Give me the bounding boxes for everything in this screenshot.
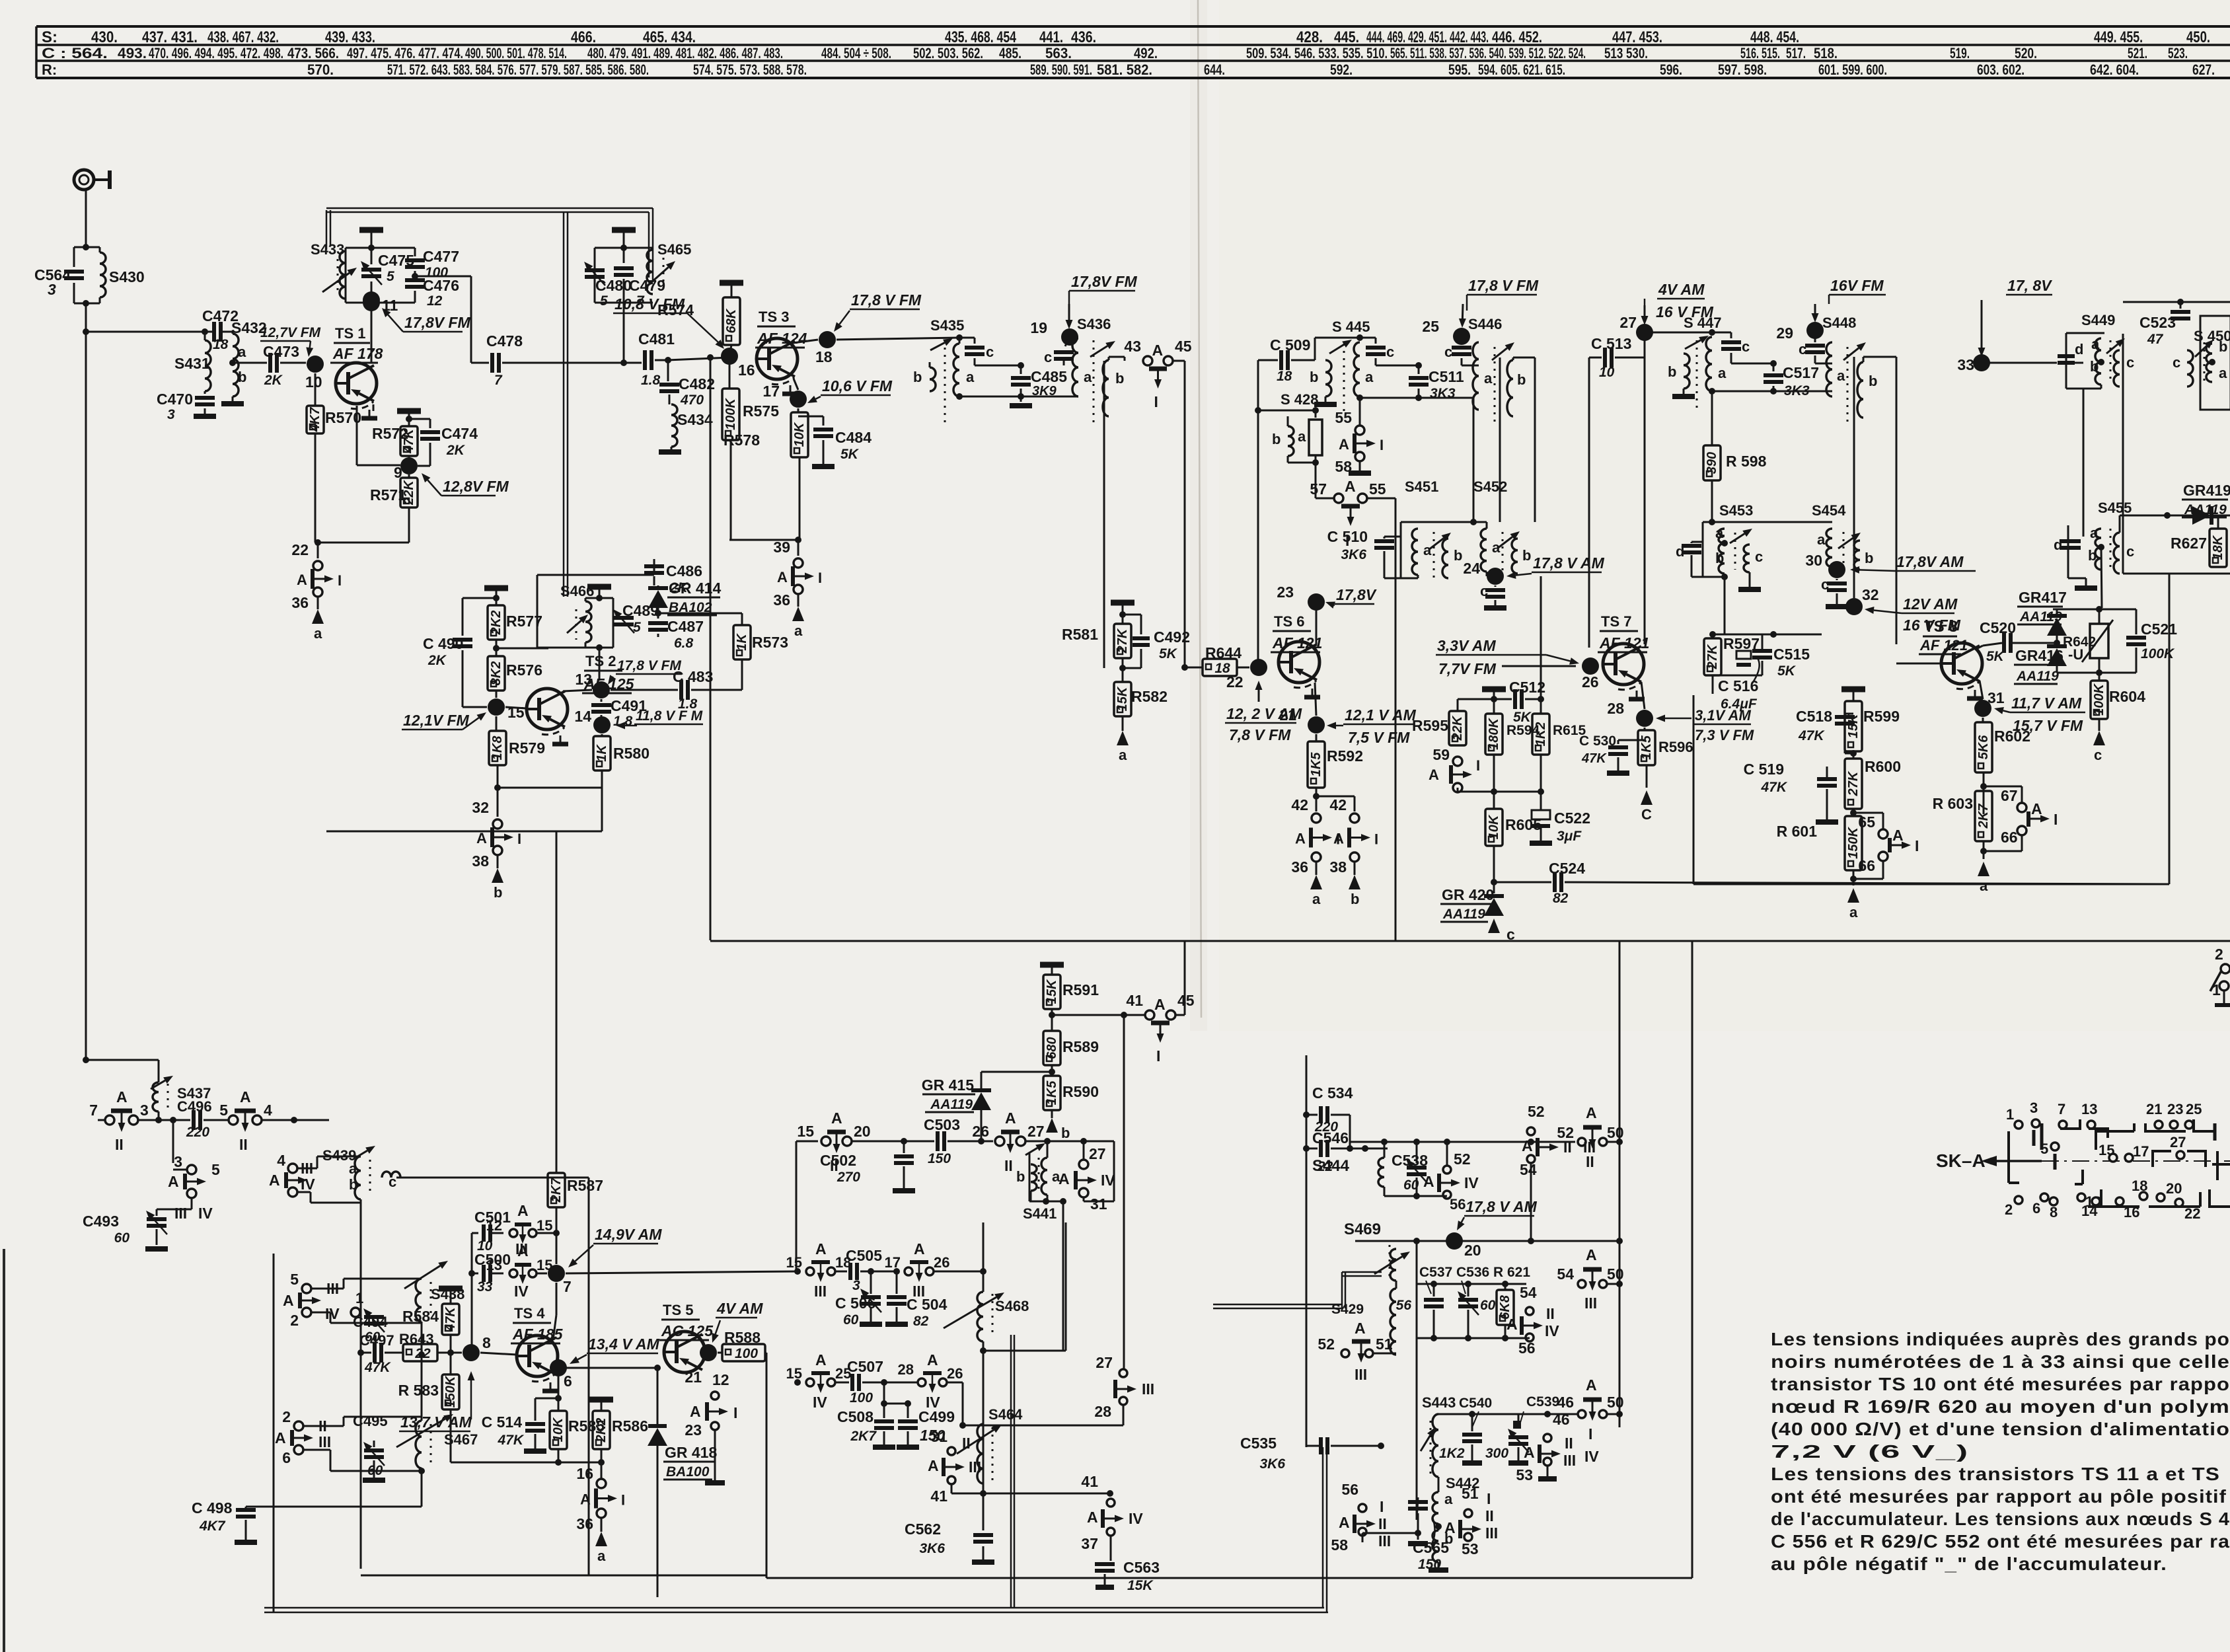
svg-text:523.: 523. [2168,45,2188,61]
capacitor d S453 [1691,541,1703,543]
svg-text:27: 27 [1089,1145,1106,1162]
svg-text:47K: 47K [364,1360,391,1375]
svg-text:I: I [1374,831,1378,848]
node 28 [1641,682,1645,709]
svg-text:13,7 V AM: 13,7 V AM [400,1413,472,1431]
tank S465 frame [595,247,653,249]
svg-text:S444: S444 [1312,1157,1350,1175]
svg-text:82: 82 [913,1314,929,1329]
svg-text:270: 270 [836,1170,860,1185]
svg-text:A: A [1506,1316,1518,1333]
svg-text:32: 32 [472,799,489,816]
svg-text:d: d [2054,537,2062,553]
resistor R591 [1043,975,1060,1009]
svg-text:563.: 563. [1045,45,1072,61]
svg-text:R579: R579 [509,739,545,757]
tank S466 [587,584,611,590]
long vertical right x2451 [1619,942,1621,1427]
contact 54-A-50-III right [1578,1280,1586,1288]
svg-text:c: c [1480,583,1488,599]
wire left rail down [85,303,87,1060]
svg-text:a: a [2090,525,2099,541]
svg-text:52: 52 [1454,1150,1471,1168]
node 26 [1582,657,1599,675]
svg-text:12V AM: 12V AM [1903,595,1958,613]
svg-text:A: A [1005,1109,1016,1127]
transistor TS4 AF185 [517,1335,558,1376]
resistor R595 [1458,698,1494,700]
node 7 [548,1265,565,1282]
svg-text:IV: IV [1545,1322,1559,1339]
svg-text:7: 7 [563,1278,572,1295]
svg-text:TS 6: TS 6 [1274,613,1304,630]
wire emitter to node 9 row [356,406,358,465]
node 11 [363,291,380,309]
svg-text:36: 36 [773,591,790,609]
svg-text:b: b [494,884,502,901]
svg-text:S465: S465 [657,241,691,258]
wire antenna down [85,190,87,247]
svg-text:50: 50 [1607,1265,1624,1283]
capacitor C523 [2177,299,2184,305]
resistor R603 [1975,791,1992,841]
row C507 [796,1271,797,1382]
svg-text:1.8: 1.8 [678,696,698,712]
svg-text:III: III [814,1283,827,1300]
svg-text:428.: 428. [1296,28,1323,46]
svg-text:4V AM: 4V AM [716,1300,763,1317]
svg-text:390: 390 [1705,452,1719,474]
svg-text:GR417: GR417 [2019,589,2067,606]
svg-text:300: 300 [1485,1446,1508,1461]
svg-text:c: c [1044,349,1052,365]
svg-text:53: 53 [1462,1540,1479,1558]
svg-text:nœud R 169/R 620 au moyen d'un: nœud R 169/R 620 au moyen d'un polym [1771,1396,2230,1417]
resistor R585 [558,1398,560,1411]
svg-text:II: II [1485,1507,1494,1524]
svg-text:C546: C546 [1312,1129,1349,1146]
svg-text:5K: 5K [1159,646,1178,661]
svg-text:C486: C486 [666,562,702,580]
svg-text:13,4 V AM: 13,4 V AM [588,1335,660,1353]
svg-text:I: I [1487,1490,1491,1507]
svg-text:S436: S436 [1077,316,1111,332]
svg-text:A: A [1892,827,1904,844]
node 19 [1061,328,1078,346]
capacitor C517 [1770,360,1777,367]
resistor R586 [589,1397,613,1403]
svg-text:5: 5 [290,1271,299,1288]
svg-text:C 483: C 483 [673,668,713,685]
svg-text:59: 59 [1432,746,1450,763]
svg-text:46: 46 [1557,1394,1574,1411]
svg-text:I: I [1915,837,1919,854]
svg-text:II: II [1004,1157,1013,1174]
row C501 [471,1233,473,1353]
svg-text:IV: IV [1584,1448,1599,1465]
svg-text:TS 5: TS 5 [663,1302,693,1318]
wire TS3 collector to node 18 [793,340,818,343]
capacitor C487 [613,623,648,624]
svg-text:431.: 431. [171,28,198,46]
svg-text:C520: C520 [1980,619,2016,636]
svg-text:II: II [115,1136,124,1153]
contact 67-A-66 R603 [1980,783,1987,790]
svg-text:a: a [1084,369,1092,385]
svg-text:C 504: C 504 [907,1296,948,1313]
svg-text:R595: R595 [1412,717,1448,734]
svg-text:56: 56 [1341,1481,1358,1498]
svg-text:c: c [1755,548,1763,565]
svg-text:AC 125: AC 125 [661,1322,714,1339]
svg-text:447. 453.: 447. 453. [1612,28,1662,46]
svg-text:5: 5 [600,293,608,309]
svg-text:S448: S448 [1822,315,1856,331]
svg-text:15K: 15K [1127,1578,1154,1593]
node 32 [1845,598,1863,615]
svg-text:3K6: 3K6 [919,1541,945,1556]
transistor TS1 AF178 [336,363,377,404]
svg-text:18: 18 [2132,1178,2147,1194]
svg-text:C515: C515 [1773,646,1810,663]
ground above R591 [1040,962,1064,968]
wire R580 bottom rail to left [601,788,603,831]
svg-text:16: 16 [576,1465,593,1482]
svg-text:470. 496. 494. 495. 472. 498.: 470. 496. 494. 495. 472. 498. [149,45,283,61]
svg-text:36: 36 [291,594,309,611]
svg-text:47K: 47K [443,1306,458,1332]
svg-text:a: a [1715,525,1724,541]
bottom rail R642 [2057,672,2136,674]
svg-text:III: III [1485,1524,1498,1542]
svg-text:28: 28 [898,1361,914,1378]
bottom junction row TS7 [1458,791,1541,793]
svg-text:C502: C502 [820,1152,856,1169]
svg-text:TS 4: TS 4 [514,1305,545,1322]
svg-text:C562: C562 [905,1521,941,1538]
svg-text:C 509: C 509 [1270,336,1310,354]
svg-text:5K6: 5K6 [1976,735,1991,760]
svg-text:I: I [2054,811,2058,828]
svg-text:AF 124: AF 124 [757,330,807,347]
tank S433 frame [346,247,415,249]
svg-text:A: A [1295,831,1306,847]
svg-text:R596: R596 [1658,739,1693,755]
resistor R627 [2217,515,2219,529]
svg-text:R573: R573 [752,634,788,651]
svg-text:31: 31 [1090,1195,1107,1213]
svg-text:27: 27 [1619,314,1637,331]
svg-text:603. 602.: 603. 602. [1977,61,2025,78]
svg-text:480. 479. 491. 489. 481. 482.: 480. 479. 491. 489. 481. 482. 486. 487. … [587,45,783,61]
svg-text:C492: C492 [1154,628,1190,646]
svg-text:17: 17 [762,383,780,400]
svg-text:IV: IV [301,1176,315,1193]
svg-text:2K7: 2K7 [549,1178,564,1203]
rail y1878 [1355,1240,1619,1242]
svg-text:100K: 100K [2092,683,2106,716]
svg-text:C496: C496 [177,1098,212,1115]
svg-text:C508: C508 [837,1408,873,1425]
svg-text:C494: C494 [353,1314,388,1330]
svg-text:I: I [1154,393,1158,410]
svg-text:C495: C495 [353,1413,388,1429]
TS8 base wire [1896,644,1897,663]
resistor R599 [1845,701,1862,751]
svg-text:570.: 570. [307,61,334,78]
capacitor c of S435 [959,338,975,349]
svg-text:680: 680 [1045,1037,1059,1059]
rail y1728 [1350,1141,1575,1143]
left page edge [3,1249,5,1652]
svg-text:4K7: 4K7 [308,407,322,433]
S453 coils [1719,529,1725,543]
svg-text:8K2: 8K2 [489,661,503,686]
svg-text:R572: R572 [372,425,408,442]
svg-text:S:: S: [42,28,57,46]
svg-text:I: I [517,831,521,847]
svg-text:S469: S469 [1344,1220,1381,1238]
svg-text:a: a [1817,531,1826,548]
right border box [1691,942,1693,1578]
svg-text:1: 1 [2006,1106,2014,1123]
svg-text:R589: R589 [1062,1038,1099,1055]
double wire down to S466 [563,212,565,597]
svg-text:15K: 15K [1045,979,1059,1004]
svg-text:627.: 627. [2192,61,2215,78]
svg-text:520.: 520. [2015,45,2037,61]
svg-text:46: 46 [1553,1411,1570,1428]
svg-text:AA119: AA119 [1442,907,1485,922]
svg-text:16: 16 [738,361,755,379]
svg-text:R643: R643 [399,1331,434,1347]
svg-text:I: I [338,572,342,589]
svg-text:10: 10 [1599,365,1615,380]
svg-text:5: 5 [211,1161,220,1178]
svg-text:A: A [1154,996,1166,1013]
svg-text:470: 470 [680,393,704,408]
svg-text:43: 43 [1124,338,1141,355]
terminal b R590 [1051,1110,1053,1118]
transistor TS7 AF121 [1603,644,1644,685]
svg-text:C476: C476 [423,277,459,294]
svg-text:150K: 150K [1846,827,1861,859]
svg-text:C524: C524 [1549,860,1585,877]
capacitor C484 [798,416,823,418]
wire node33 to S449 [1982,362,2057,363]
svg-text:10K: 10K [792,422,807,447]
svg-text:54: 54 [1520,1284,1537,1301]
svg-text:17,8 V AM: 17,8 V AM [1466,1198,1538,1215]
trimmer C475 [371,248,373,264]
wire S453 bottom down [1724,577,1726,634]
svg-text:A: A [1355,1320,1366,1337]
svg-text:R587: R587 [567,1177,603,1194]
svg-text:1: 1 [355,1290,363,1306]
svg-text:III: III [1584,1295,1597,1312]
svg-text:2: 2 [290,1312,299,1329]
svg-text:26: 26 [1582,673,1599,691]
svg-text:51: 51 [1462,1485,1479,1502]
resistor R590 [1043,1076,1060,1110]
svg-text:C 490: C 490 [423,635,463,652]
svg-text:S435: S435 [930,317,964,334]
terminal c TS7 [1641,790,1653,805]
svg-text:C 498: C 498 [192,1499,233,1517]
wire to C472 [86,331,213,333]
svg-text:C511: C511 [1429,368,1464,385]
capacitor C490 [463,597,496,599]
rail S445 down from bottom [1473,398,1475,522]
wire y2157 to contact 28 [963,1425,1123,1427]
svg-text:1K: 1K [735,633,749,651]
svg-text:II: II [1565,1435,1573,1452]
svg-text:595.: 595. [1448,61,1471,78]
svg-text:10K: 10K [1487,814,1501,839]
svg-text:b: b [1272,431,1281,447]
svg-text:31: 31 [930,1428,948,1445]
svg-text:C 513: C 513 [1591,335,1631,352]
svg-text:2K2: 2K2 [594,1418,609,1443]
terminal a TS3 [798,594,799,607]
svg-text:3: 3 [852,1278,860,1293]
svg-text:2K2: 2K2 [489,611,503,636]
junction GR415 [978,1138,985,1145]
svg-text:III: III [1378,1532,1391,1550]
capacitor C496 [173,1119,190,1121]
svg-text:7,5 V FM: 7,5 V FM [1348,729,1410,746]
contact 52-A-IV-56 S444 [1446,1142,1448,1166]
svg-text:SK–A: SK–A [1936,1150,1986,1171]
wire R575 R578 bottom rail [729,539,798,541]
svg-text:100: 100 [735,1346,758,1361]
antenna jack [74,170,94,190]
svg-text:C 506: C 506 [835,1295,875,1312]
node 18 [819,331,836,348]
capacitor C473 [233,362,267,364]
svg-text:4: 4 [264,1102,272,1119]
svg-text:17: 17 [885,1254,901,1271]
svg-text:10,6 V FM: 10,6 V FM [822,377,893,394]
junction R581 bottom [1122,658,1124,682]
svg-text:C 534: C 534 [1312,1084,1353,1102]
wire bus node22 [1181,664,1188,671]
wire S439 b rail down [360,1203,362,1569]
svg-text:a: a [349,1160,357,1177]
ground under S434 [671,447,673,449]
svg-text:13: 13 [486,1257,502,1273]
capacitor C472 [212,322,216,342]
resistor R580 [601,734,603,736]
capacitor C522 electrolytic [1540,792,1542,810]
svg-text:IV: IV [514,1283,529,1300]
svg-text:b: b [1061,1125,1070,1141]
svg-text:C 510: C 510 [1327,528,1368,545]
svg-text:33: 33 [1957,356,1974,373]
node 25 [1453,328,1470,345]
svg-text:5K: 5K [840,447,860,462]
resistor R575 [729,356,731,389]
svg-text:60: 60 [367,1463,383,1478]
svg-text:10,8 V FM: 10,8 V FM [614,295,685,313]
contact 65-A-66 R601 [1853,812,1883,814]
svg-text:A: A [297,572,307,588]
svg-text:A: A [690,1403,701,1420]
svg-text:18: 18 [815,348,833,365]
svg-text:2: 2 [2005,1201,2013,1218]
svg-text:A: A [1059,1170,1070,1187]
svg-text:TS 7: TS 7 [1601,613,1631,630]
resistor R583 [450,1353,452,1374]
svg-text:53: 53 [1516,1466,1533,1483]
wire junction to contact41 [1052,1014,1145,1016]
svg-text:a: a [1837,367,1845,384]
capacitor c under node24 [1495,585,1497,587]
svg-text:A: A [476,830,487,846]
svg-text:60: 60 [1480,1298,1496,1313]
svg-text:60: 60 [114,1230,130,1246]
svg-text:644.: 644. [1204,61,1225,78]
capacitor C520 [2002,633,2006,653]
svg-text:A: A [580,1491,591,1508]
svg-text:436.: 436. [1071,28,1096,46]
svg-text:A: A [1429,767,1439,783]
contact 43-A-45 [1143,356,1152,365]
svg-text:a: a [1298,428,1306,445]
wire S445 block to S428 [1258,410,1316,411]
contact 17-A-26-III [905,1267,912,1275]
svg-text:3: 3 [2030,1100,2038,1116]
svg-text:A: A [269,1172,280,1189]
capacitor C478 [490,353,494,373]
svg-text:642. 604.: 642. 604. [2090,61,2139,78]
resistor R577 [488,605,505,640]
svg-text:50: 50 [1607,1394,1624,1411]
svg-text:1K: 1K [595,744,609,762]
contact 16-A-36 [601,1462,603,1479]
svg-text:47K: 47K [497,1433,524,1448]
capacitor C563 [1110,1536,1112,1561]
capacitor C521 [2136,609,2137,634]
svg-text:66: 66 [1858,857,1875,874]
svg-text:18K: 18K [2211,535,2225,560]
svg-text:b: b [1310,369,1318,385]
svg-text:38: 38 [472,852,489,870]
ground C512 row [1482,687,1506,693]
svg-text:II: II [239,1136,248,1153]
svg-text:65: 65 [1858,813,1875,831]
resistor R600 [1845,759,1862,809]
svg-text:150K: 150K [443,1375,458,1408]
svg-text:A: A [831,1109,842,1127]
svg-text:c: c [2094,747,2102,763]
svg-text:S 445: S 445 [1332,319,1370,335]
node 14 [593,716,611,733]
node 6 [554,1368,558,1372]
svg-text:c: c [2126,543,2134,560]
capacitor C498 [421,1471,423,1507]
contact A-I pin32-38 [497,788,499,817]
coil S434 [669,394,671,404]
contacts 42-36-a and 42-38-b [1313,793,1319,800]
svg-text:IV: IV [325,1305,340,1322]
terminal a R603 [1978,862,1989,876]
svg-text:17,8 V FM: 17,8 V FM [1468,277,1539,294]
capacitor C507 [835,1382,849,1384]
svg-text:b: b [1016,1168,1025,1185]
contact A-I pin39-36 TS3 [798,540,799,556]
svg-text:3K6: 3K6 [1259,1456,1285,1472]
